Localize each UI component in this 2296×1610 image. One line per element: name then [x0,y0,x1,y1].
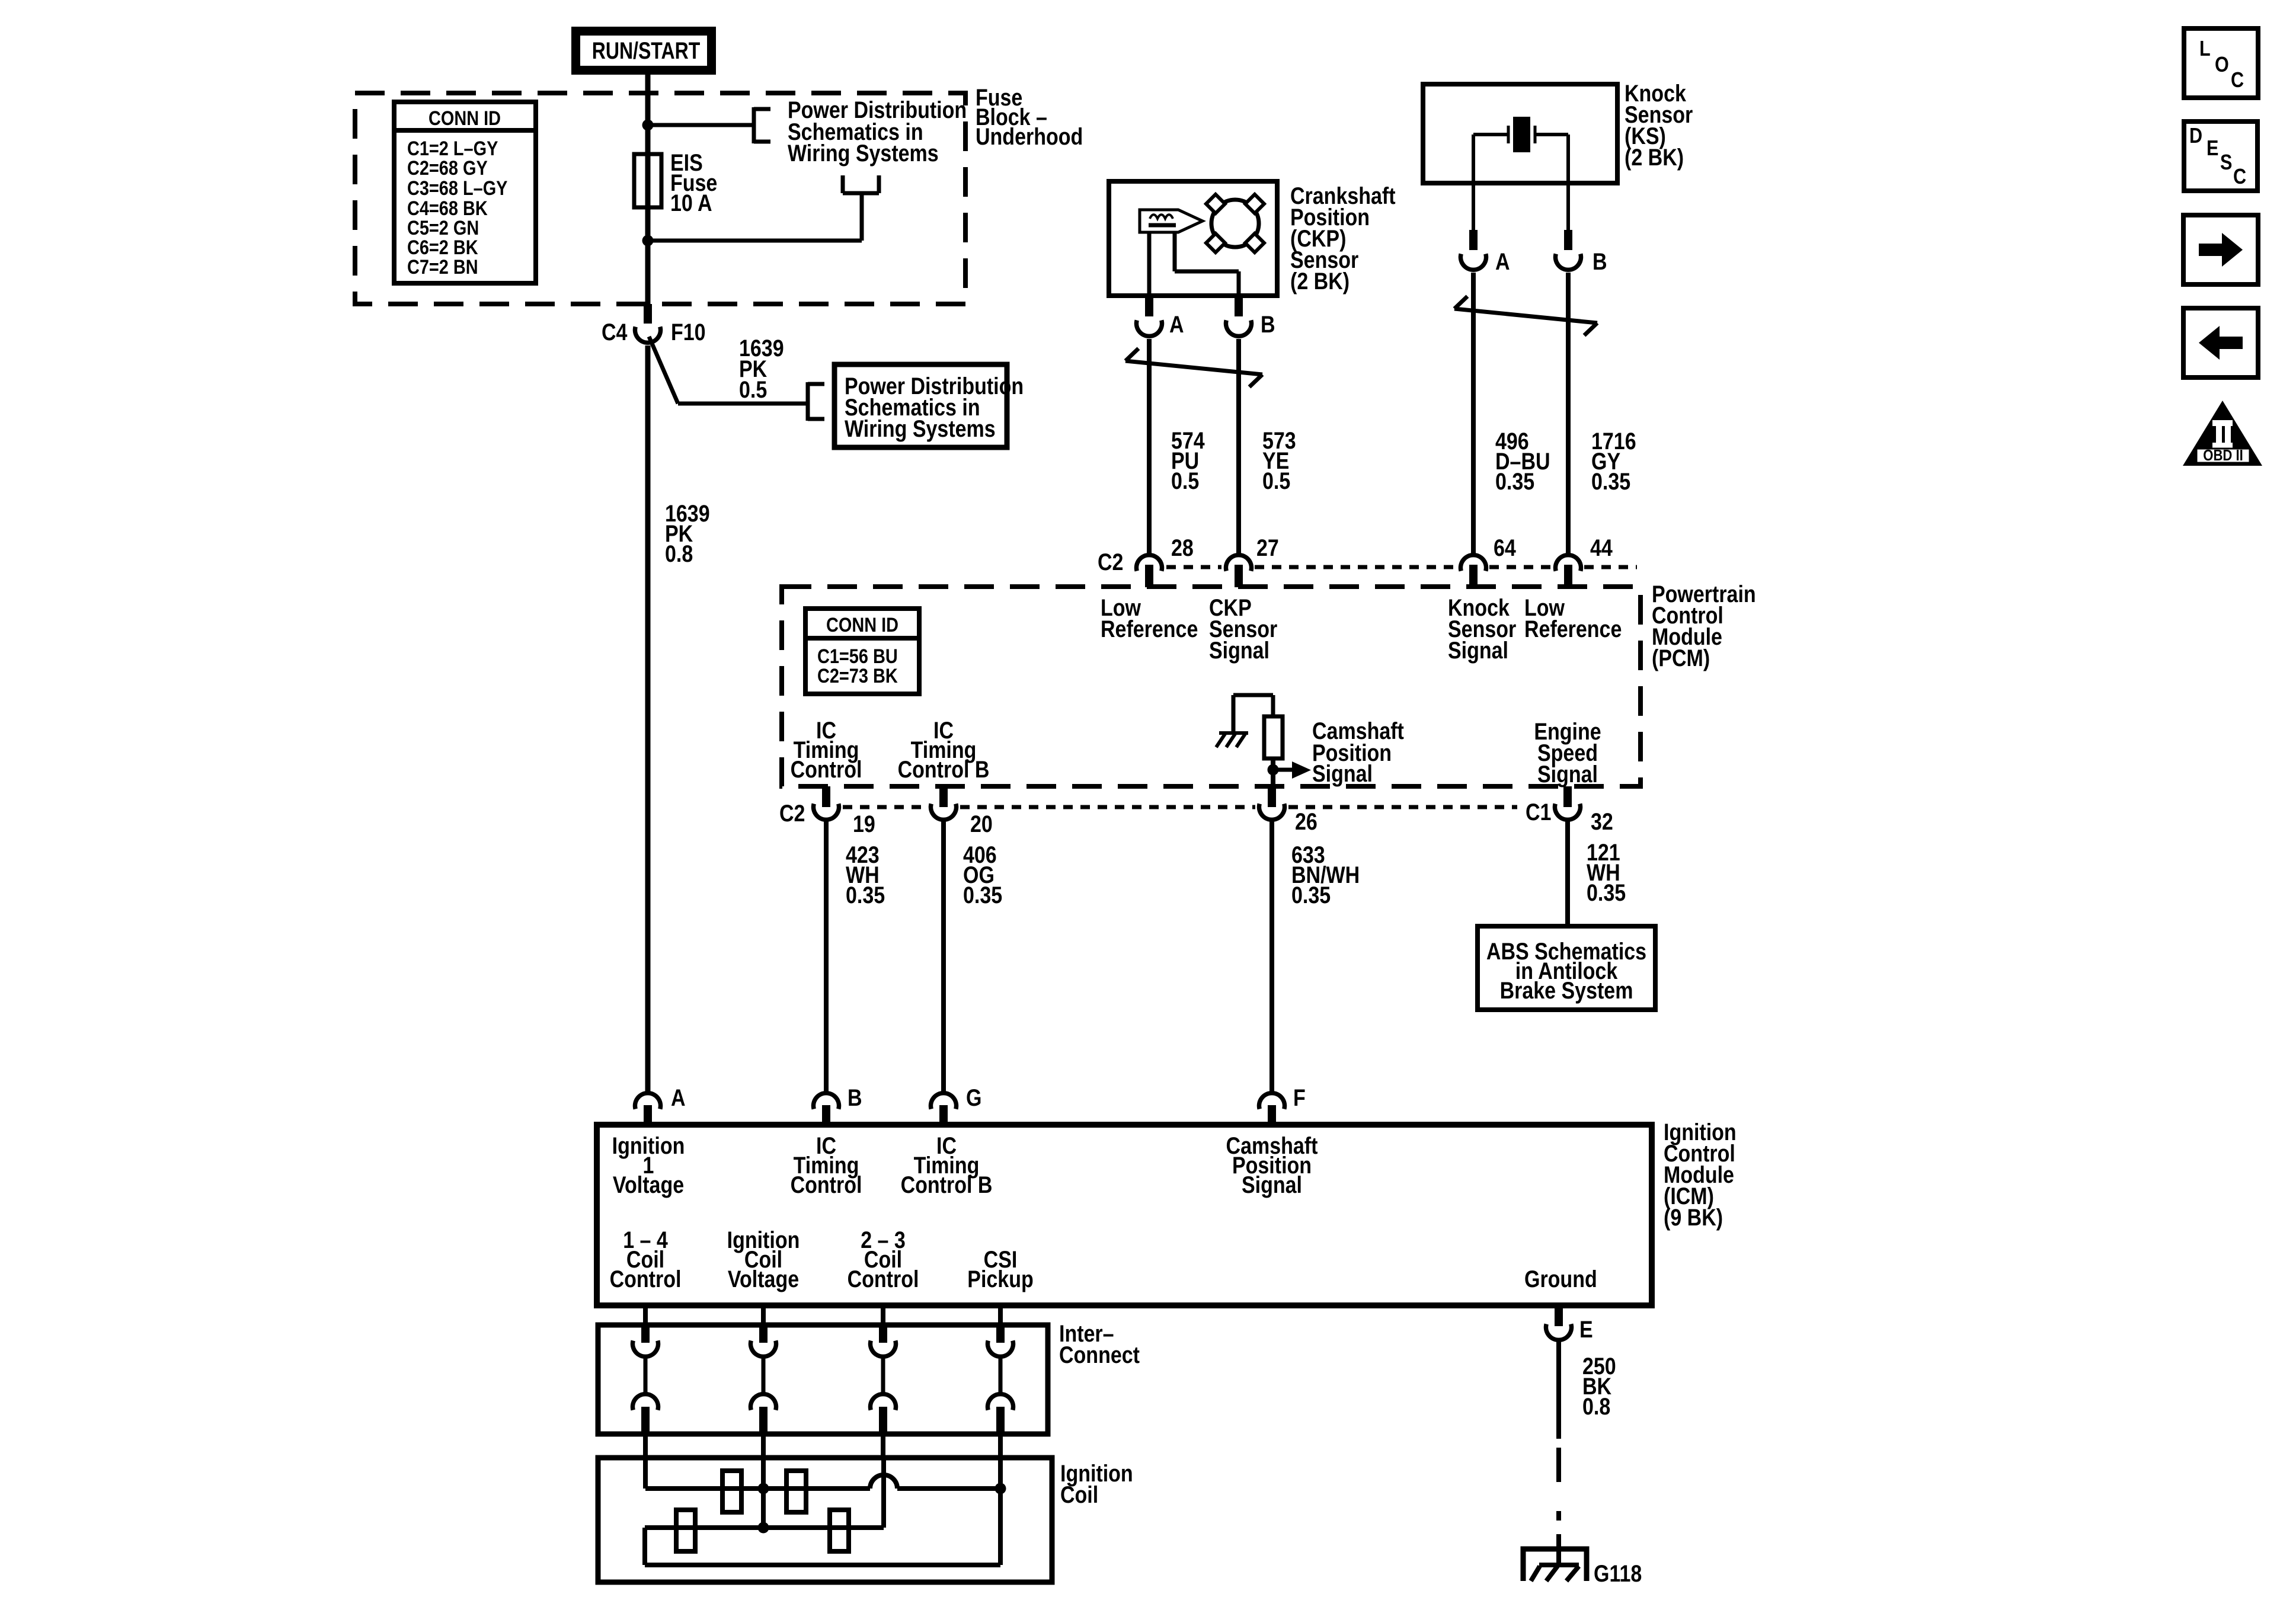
label IC Timing Control (ICM) [791,1132,862,1198]
pin label E [1579,1315,1593,1342]
label Camshaft Position Signal (PCM) [1312,717,1404,786]
pin number 19 [853,810,875,837]
wire branch to power distribution reference [648,123,754,127]
knock sensor element [1473,117,1568,152]
wire 250 BK 0.8 solid [1556,1340,1561,1439]
off-page connector U bracket [843,175,879,193]
PCM dashed box [782,587,1641,786]
svg-text:(9 BK): (9 BK) [1664,1204,1723,1230]
pin number 26 [1295,808,1318,834]
svg-text:(2 BK): (2 BK) [1290,267,1350,294]
resistor camshaft position pull-up [1264,716,1283,758]
svg-text:F10: F10 [671,318,706,345]
svg-text:E: E [1579,1315,1593,1342]
svg-text:C2: C2 [1098,548,1123,575]
pin number 27 [1256,534,1279,561]
svg-text:C2: C2 [779,799,805,826]
knock sensor box [1423,84,1617,183]
svg-text:Wiring Systems: Wiring Systems [788,139,939,166]
wire label 633 BN/WH 0.35 [1291,841,1360,908]
ICM box [597,1125,1652,1305]
boxed label Power Distribution Schematics in Wiring Systems [834,364,1024,447]
svg-text:RUN/START: RUN/START [592,37,700,64]
svg-text:Pickup: Pickup [967,1265,1033,1292]
connector KS pin B [1556,230,1581,270]
label G118 [1594,1560,1642,1586]
svg-text:Ground: Ground [1524,1265,1597,1292]
svg-text:L: L [2199,37,2211,61]
svg-text:32: 32 [1591,808,1613,834]
svg-text:OBD II: OBD II [2203,447,2243,464]
pin number 44 [1590,534,1613,561]
label C1 [1526,798,1551,825]
svg-text:C: C [2233,165,2246,189]
svg-text:B: B [1261,311,1275,337]
svg-text:F: F [1293,1084,1306,1110]
wire 1639 PK 0.8 to ICM [645,345,651,1092]
label Low Reference (pin 28) [1101,594,1198,642]
label Low Reference (pin 44) [1524,594,1622,642]
junction node coil line1-wire4 [995,1483,1006,1494]
label Ignition Control Module (ICM) (9 BK) [1664,1118,1737,1230]
label Ignition 1 Voltage [612,1132,685,1198]
connector pin 26 [1259,786,1285,820]
label Crankshaft Position (CKP) Sensor (2 BK) [1290,182,1396,294]
KS lead B [1566,183,1570,233]
connector ICM pin E [1546,1305,1572,1340]
svg-text:Control: Control [791,1171,862,1198]
wire branch to second reference [648,193,862,241]
connector pin 27 [1226,555,1252,587]
icon LOC [2184,28,2258,98]
pin number 32 [1591,808,1613,834]
wire 250 BK 0.8 dashed continuation [1556,1448,1561,1521]
svg-text:D: D [2189,124,2202,148]
svg-text:0.8: 0.8 [665,540,693,566]
connector C2 pin 28 [1137,555,1162,587]
coil return path line 3 [645,1528,1000,1565]
svg-text:Signal: Signal [1209,636,1269,663]
wire RUN/START feed down to fuse F10 [645,75,651,304]
svg-text:Signal: Signal [1242,1171,1302,1198]
svg-text:0.35: 0.35 [1495,468,1534,494]
wire 574 PU 0.5 [1147,339,1152,553]
svg-text:0.5: 0.5 [739,376,767,402]
label Fuse Block - Underhood [976,84,1083,149]
connector CKP pin B [1226,296,1252,336]
label Engine Speed Signal (PCM) [1534,718,1601,787]
pin label A (ICM) [671,1084,686,1110]
svg-text:Signal: Signal [1448,636,1508,663]
svg-text:B: B [1593,248,1607,274]
svg-text:28: 28 [1171,534,1194,561]
label Camshaft Position Signal (ICM) [1226,1132,1318,1198]
wire ICM to interconnect 2 [761,1305,766,1325]
wire label 423 WH 0.35 [846,841,885,908]
fuse EIS 10 A [634,154,661,207]
power feed badge RUN/START [576,31,712,71]
wire interconnect to ignition coil 1 [643,1434,648,1460]
svg-text:0.35: 0.35 [846,881,885,908]
svg-text:0.35: 0.35 [963,881,1002,908]
connector ICM pin B [814,1093,839,1125]
svg-text:Coil: Coil [1060,1481,1098,1507]
connector ICM pin F [1259,1093,1285,1125]
junction node coil line1-wire2 [758,1483,769,1494]
svg-text:19: 19 [853,810,875,837]
connector C1 pin 32 [1555,786,1581,820]
svg-text:(2 BK): (2 BK) [1625,143,1684,170]
CONN ID table fuse block [394,102,536,283]
pin number 28 [1171,534,1194,561]
svg-text:Signal: Signal [1537,760,1598,787]
CONN ID table PCM [805,609,919,694]
svg-text:C2=73 BK: C2=73 BK [817,664,898,687]
label Knock Sensor (KS) (2 BK) [1625,79,1693,170]
wire 1639 PK 0.5 branch [649,337,807,404]
wire 423 WH 0.35 [824,820,829,1092]
CKP sensor pickup symbol [1140,210,1203,232]
svg-text:A: A [1495,248,1510,274]
svg-text:27: 27 [1256,534,1279,561]
wire label 250 BK 0.8 [1582,1352,1616,1419]
wire label 406 OG 0.35 [963,841,1002,908]
pin label G (ICM) [966,1084,981,1110]
connector pin 44 [1556,555,1581,587]
svg-text:26: 26 [1295,808,1318,834]
icon arrow right [2183,215,2258,284]
wire interconnect to ignition coil 4 [998,1434,1003,1460]
pin label B (ICM) [848,1084,862,1110]
svg-text:Wiring Systems: Wiring Systems [845,415,996,441]
harness break mark CKP wires [1125,348,1262,387]
svg-text:64: 64 [1494,534,1516,561]
harness break mark KS wires [1454,296,1597,335]
svg-text:S: S [2220,151,2232,175]
pin label B [1261,311,1275,337]
svg-text:Connect: Connect [1059,1341,1140,1368]
coil winding D [830,1510,849,1551]
PCM bottom connector row dashed line [843,805,1517,809]
svg-text:A: A [1169,311,1184,337]
icon arrow left [2183,308,2258,377]
connector C2 pin 19 [814,786,839,820]
svg-text:A: A [671,1084,686,1110]
wire label 1639 PK 0.8 [665,500,710,566]
label IC Timing Control (PCM) [791,716,862,782]
wire label 1639 PK 0.5 [739,334,784,402]
wire ICM to interconnect 3 [881,1305,885,1325]
svg-text:C4: C4 [602,318,628,345]
connector CKP pin A [1137,296,1162,336]
pin label A (KS) [1495,248,1510,274]
wire 496 D-BU 0.35 [1471,273,1476,553]
label EIS Fuse 10 A [670,149,717,216]
svg-text:Underhood: Underhood [976,123,1083,149]
KS lead A [1472,183,1475,233]
connector ICM pin G [930,1093,956,1125]
PCM top connector row dashed line [1166,565,1637,569]
connector pin 64 [1461,555,1486,587]
svg-text:20: 20 [970,810,993,837]
wire label 1716 GY 0.35 [1591,427,1636,494]
coil winding A [722,1471,741,1512]
interconnect connector pair 2 [750,1327,776,1432]
wire label 574 PU 0.5 [1171,427,1205,494]
pin number 20 [970,810,993,837]
wire resistor to pin 26 [1271,758,1275,786]
label IC Timing Control B (PCM) [898,716,990,782]
wire ICM to interconnect 4 [998,1305,1003,1325]
interconnect connector pair 4 [988,1327,1013,1432]
svg-text:10 A: 10 A [670,189,712,216]
interconnect box [598,1325,1048,1434]
wire resistor to internal ground [1233,695,1273,732]
label C2 (PCM bottom) [779,799,805,826]
label C4 [602,318,628,345]
svg-text:Reference: Reference [1524,615,1622,642]
label 2 - 3 Coil Control [848,1226,919,1292]
connector pin 20 [930,786,956,820]
svg-text:CONN ID: CONN ID [428,107,501,130]
svg-text:C: C [2231,69,2244,92]
svg-text:Control: Control [610,1265,682,1292]
connector C4/F10 [635,304,660,343]
wire label 573 YE 0.5 [1262,427,1296,494]
pin label A [1169,311,1184,337]
svg-text:Signal: Signal [1312,760,1373,786]
svg-text:0.8: 0.8 [1582,1393,1610,1419]
interconnect connector pair 3 [871,1327,896,1432]
coil wire 4 drop [998,1458,1003,1565]
label F10 [671,318,706,345]
coil secondary line 2 [645,1525,884,1530]
boxed label ABS Schematics in Antilock Brake System [1478,926,1655,1010]
junction node camshaft signal [1268,764,1279,776]
KS internal wire A [1472,135,1475,183]
svg-text:C3=68 L–GY: C3=68 L–GY [407,177,507,200]
svg-text:CONN ID: CONN ID [826,613,898,636]
wire hop over CSI wire [870,1475,897,1489]
coil wire 3 drop (CSI) [881,1458,886,1528]
CKP sensor box [1109,181,1277,296]
wire 633 BN/WH 0.35 [1269,820,1274,1092]
wire 573 YE 0.5 [1236,339,1241,553]
off-page connector bracket [754,107,770,143]
connector KS pin A [1461,230,1486,270]
off-page connector bracket 2 [808,382,824,421]
fuse block underhood dashed box [355,93,965,304]
icon DESC [2184,121,2257,191]
junction node below fuse [642,235,654,247]
svg-text:0.5: 0.5 [1171,467,1199,494]
label Ground (ICM) [1524,1265,1597,1292]
svg-text:0.35: 0.35 [1291,881,1331,908]
svg-text:44: 44 [1590,534,1613,561]
svg-text:C7=2 BN: C7=2 BN [407,255,478,279]
KS internal wire B [1566,135,1570,183]
svg-text:Reference: Reference [1101,615,1198,642]
label CKP Sensor Signal (pin 27) [1209,594,1277,663]
svg-text:B: B [848,1084,862,1110]
svg-text:Control B: Control B [901,1171,993,1198]
arrow camshaft position signal [1273,761,1311,779]
coil winding B [786,1471,806,1512]
wire interconnect to ignition coil 3 [881,1434,885,1460]
pin number 64 [1494,534,1516,561]
label Inter-Connect [1059,1320,1140,1368]
junction node on feed wire [642,120,654,131]
ground G118 [1523,1534,1587,1581]
junction node coil line2-wire2 [758,1522,769,1534]
svg-text:E: E [2207,137,2218,161]
pin label F (ICM) [1293,1084,1306,1110]
label 1 - 4 Coil Control [610,1226,682,1292]
svg-text:Brake System: Brake System [1500,977,1633,1003]
wire ICM to interconnect 1 [643,1305,648,1325]
wire 406 OG 0.35 [941,820,946,1092]
svg-text:O: O [2215,53,2229,77]
svg-text:0.5: 0.5 [1262,467,1290,494]
label Knock Sensor Signal (pin 64) [1448,594,1516,663]
label Power Distribution Schematics in Wiring Systems (top) [788,96,967,166]
coil primary line 1 [645,1486,1000,1491]
interconnect connector pair 1 [633,1327,658,1432]
pin label B (KS) [1593,248,1607,274]
svg-text:Control: Control [791,756,862,782]
wire 121 WH 0.35 [1565,820,1570,926]
label Powertrain Control Module (PCM) [1652,580,1756,671]
wire label 496 D-BU 0.35 [1495,427,1550,494]
icon OBD II triangle [2183,401,2262,466]
CKP reluctor wheel symbol [1206,194,1264,252]
wire label 121 WH 0.35 [1587,838,1626,905]
svg-text:Control B: Control B [898,756,990,782]
svg-text:Voltage: Voltage [728,1265,799,1292]
CKP internal wire A [1147,232,1152,296]
CKP internal wire B [1175,232,1239,296]
PCM internal chassis ground [1216,733,1248,747]
svg-text:C1: C1 [1526,798,1551,825]
label Ignition Coil [1060,1459,1133,1507]
label IC Timing Control B (ICM) [901,1132,993,1198]
svg-text:G118: G118 [1594,1560,1642,1586]
wire interconnect to ignition coil 2 [761,1434,766,1460]
svg-text:Voltage: Voltage [613,1171,684,1198]
svg-text:C2=68 GY: C2=68 GY [407,156,488,180]
svg-text:(PCM): (PCM) [1652,644,1710,671]
connector ICM pin A [635,1093,661,1125]
svg-text:Control: Control [848,1265,919,1292]
svg-text:0.35: 0.35 [1591,468,1630,494]
label Ignition Coil Voltage [727,1226,800,1292]
coil wire 1 drop [643,1458,648,1489]
coil winding C [676,1510,695,1551]
ignition coil box [598,1458,1052,1582]
label CSI Pickup [967,1246,1033,1292]
svg-text:G: G [966,1084,981,1110]
wire 1716 GY 0.35 [1566,273,1571,553]
svg-text:0.35: 0.35 [1587,879,1626,905]
label C2 (PCM top) [1098,548,1123,575]
coil wire 2 drop [761,1458,766,1528]
